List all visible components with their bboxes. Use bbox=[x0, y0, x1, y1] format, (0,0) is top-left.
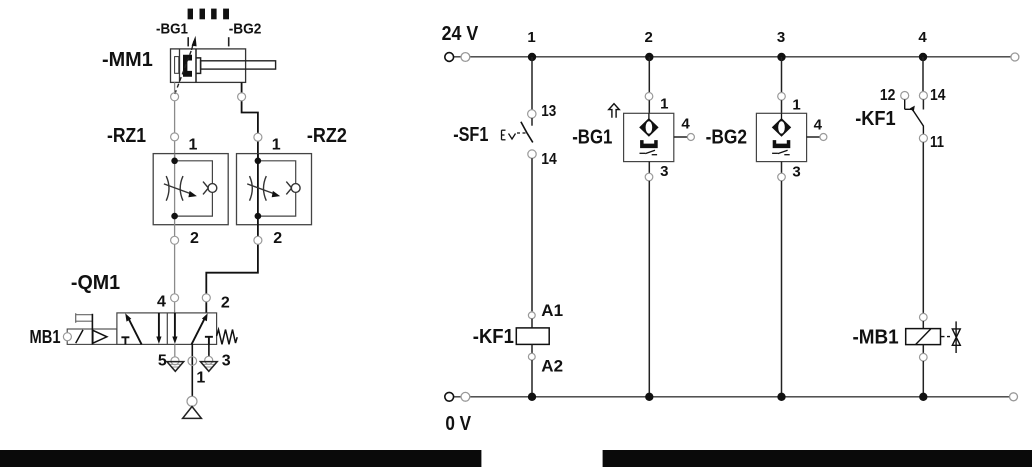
valve -QM1 left cell flow paths bbox=[121, 313, 158, 345]
svg-text:-RZ1: -RZ1 bbox=[107, 125, 146, 147]
relay coil -KF1 bbox=[516, 328, 549, 345]
wire bbox=[531, 319, 533, 328]
pin circle A2 bbox=[528, 353, 535, 360]
pin circle valve port 4 bbox=[171, 294, 179, 302]
svg-text:-BG2: -BG2 bbox=[706, 126, 748, 148]
svg-text:3: 3 bbox=[792, 164, 800, 181]
sensor position tick -BG1 bbox=[187, 37, 189, 46]
sensor -BG1 reed symbol bbox=[640, 113, 658, 136]
wire to 0V bbox=[531, 360, 533, 397]
actuation arrow bbox=[609, 104, 620, 118]
pin circle below coil bbox=[920, 353, 928, 361]
svg-text:-KF1: -KF1 bbox=[855, 108, 896, 130]
svg-text:1: 1 bbox=[196, 370, 205, 387]
svg-text:1: 1 bbox=[527, 29, 535, 46]
svg-text:2: 2 bbox=[221, 294, 230, 311]
solenoid MB1 with pilot bbox=[67, 329, 117, 344]
wire valve port 1 to supply bbox=[191, 344, 193, 396]
solenoid coil -MB1 bbox=[906, 329, 941, 345]
svg-text:12: 12 bbox=[880, 87, 896, 104]
pin circle 3 bbox=[645, 173, 653, 181]
pin circle 12 bbox=[901, 92, 909, 100]
magnet piston of -MM1 bbox=[183, 55, 192, 77]
svg-text:1: 1 bbox=[189, 136, 198, 153]
wire 11 to -MB1 bbox=[922, 142, 924, 313]
rail end circles left bbox=[445, 53, 454, 62]
wire stub below 13 bbox=[531, 118, 533, 126]
sensor -BG2 reed symbol bbox=[773, 113, 791, 136]
pin circle 1 bbox=[645, 93, 653, 101]
silencer at port 5 bbox=[167, 344, 184, 371]
svg-text:11: 11 bbox=[930, 134, 944, 151]
24V rail bbox=[449, 56, 1015, 58]
sensor -BG2 magnet symbol bbox=[773, 140, 791, 148]
pin circle 14 bbox=[919, 92, 927, 100]
svg-text:2: 2 bbox=[273, 230, 282, 247]
wire bbox=[531, 344, 533, 353]
manual override bbox=[76, 313, 93, 323]
pin circle -RZ2 port 2 bbox=[254, 236, 262, 244]
pin circle -RZ2 port 1 bbox=[254, 133, 262, 141]
pin circle 3 bbox=[778, 173, 786, 181]
svg-text:3: 3 bbox=[660, 163, 668, 180]
solenoid divider bbox=[91, 314, 93, 345]
valve -QM1 right cell flow paths bbox=[175, 313, 213, 345]
wire bbox=[781, 162, 783, 173]
wire bbox=[531, 57, 533, 110]
svg-text:14: 14 bbox=[541, 151, 557, 168]
wire cylinder right port to -RZ2 bbox=[242, 82, 258, 160]
pushbutton actuator icon bbox=[502, 130, 528, 140]
pin circle A1 bbox=[528, 312, 535, 319]
svg-text:4: 4 bbox=[681, 116, 690, 133]
svg-text:MB1: MB1 bbox=[30, 327, 61, 347]
sensor -BG2 contact bbox=[772, 150, 790, 154]
sensor -BG2 box bbox=[756, 113, 806, 161]
svg-text:4: 4 bbox=[157, 294, 166, 311]
pin circle 13 bbox=[528, 110, 536, 118]
return spring bbox=[217, 330, 238, 345]
svg-text:1: 1 bbox=[660, 96, 668, 113]
svg-text:-MM1: -MM1 bbox=[102, 49, 153, 71]
svg-text:4: 4 bbox=[814, 117, 823, 134]
svg-text:-BG1: -BG1 bbox=[572, 126, 612, 148]
valve link symbol bbox=[941, 321, 960, 353]
silencer at port 3 bbox=[200, 344, 217, 371]
svg-text:13: 13 bbox=[541, 103, 556, 120]
pin circle 11 bbox=[919, 134, 927, 142]
bottom black bar right bbox=[603, 450, 1032, 467]
bottom black bar left bbox=[0, 450, 481, 467]
svg-text:-SF1: -SF1 bbox=[453, 124, 488, 146]
wire bbox=[648, 162, 650, 173]
port 4 wire of -BG2 bbox=[807, 136, 820, 138]
svg-text:-MB1: -MB1 bbox=[853, 326, 899, 348]
pin circle solenoid MB1 bbox=[63, 333, 71, 341]
pin circle valve port 2 bbox=[202, 294, 210, 302]
pin circle port 1 bbox=[188, 357, 197, 366]
wire stub below 14 bbox=[922, 100, 924, 110]
flow control valve -RZ1 bbox=[153, 154, 228, 225]
changeover lever -KF1 bbox=[905, 100, 924, 135]
pin circle port 4 bbox=[820, 134, 827, 141]
svg-text:3: 3 bbox=[222, 353, 231, 370]
wire bbox=[648, 100, 650, 113]
pin circle 14 bbox=[528, 150, 536, 158]
svg-text:14: 14 bbox=[930, 87, 946, 104]
pin circle port 4 bbox=[687, 134, 694, 141]
svg-text:2: 2 bbox=[645, 29, 653, 46]
coil diagonal bbox=[916, 329, 931, 345]
wire -RZ2 to valve port 2 bbox=[206, 225, 258, 313]
wire 14 to coil bbox=[531, 158, 533, 311]
stroke marker bar (4 black squares) bbox=[188, 9, 229, 20]
wire cylinder left port to -RZ1 bbox=[174, 82, 176, 160]
svg-text:1: 1 bbox=[272, 136, 281, 153]
rail end circle right bbox=[1011, 53, 1019, 61]
wire to 0V bbox=[648, 181, 650, 397]
svg-text:1: 1 bbox=[792, 97, 800, 114]
sensor arrow (dashed) at -BG1 bbox=[175, 41, 194, 94]
sensor position tick -BG2 bbox=[228, 37, 230, 46]
wire bbox=[648, 57, 650, 92]
svg-text:-BG2: -BG2 bbox=[229, 20, 262, 37]
pin circle cylinder right port bbox=[238, 93, 246, 101]
pushbutton -SF1 lever bbox=[521, 122, 533, 143]
wire bbox=[781, 57, 783, 92]
svg-text:0 V: 0 V bbox=[445, 413, 471, 435]
svg-text:A2: A2 bbox=[541, 357, 563, 376]
wire to 0V bbox=[781, 181, 783, 397]
wire -RZ1 to valve port 4 bbox=[174, 225, 176, 313]
pin circle 1 bbox=[778, 93, 786, 101]
solenoid diagonal bbox=[76, 330, 83, 343]
junction dots bottom rail bbox=[528, 393, 536, 401]
sensor -BG1 contact bbox=[640, 150, 658, 154]
pin circle -RZ1 port 1 bbox=[171, 133, 179, 141]
svg-text:-QM1: -QM1 bbox=[71, 272, 120, 294]
5/2-way valve -QM1 body bbox=[117, 313, 217, 345]
junction dots top rail bbox=[528, 53, 536, 61]
svg-text:4: 4 bbox=[918, 29, 927, 46]
svg-text:A1: A1 bbox=[541, 301, 563, 320]
pin circle -RZ1 port 2 bbox=[171, 236, 179, 244]
pilot triangle bbox=[93, 330, 107, 343]
svg-text:-KF1: -KF1 bbox=[473, 326, 514, 348]
wire to 0V bbox=[922, 361, 924, 397]
wire bbox=[922, 321, 924, 329]
rail end circle right bbox=[1010, 393, 1018, 401]
svg-text:3: 3 bbox=[777, 29, 785, 46]
sensor -BG1 box bbox=[624, 113, 674, 161]
wire bbox=[781, 100, 783, 113]
wire bbox=[922, 57, 924, 91]
rail end circles left bbox=[445, 392, 454, 401]
svg-text:-RZ2: -RZ2 bbox=[307, 125, 347, 147]
wire bbox=[922, 345, 924, 354]
svg-text:24 V: 24 V bbox=[442, 23, 479, 45]
svg-text:2: 2 bbox=[190, 230, 199, 247]
compressed air supply bbox=[183, 396, 202, 418]
pin circle cylinder left port bbox=[171, 93, 179, 101]
svg-text:-BG1: -BG1 bbox=[156, 20, 188, 37]
0V rail bbox=[449, 396, 1014, 398]
flow control valve -RZ2 bbox=[237, 154, 312, 225]
cylinder -MM1 bbox=[171, 49, 276, 83]
port 4 wire of -BG1 bbox=[674, 136, 688, 138]
sensor -BG1 magnet symbol bbox=[640, 140, 658, 148]
pin circle above coil bbox=[920, 313, 928, 321]
